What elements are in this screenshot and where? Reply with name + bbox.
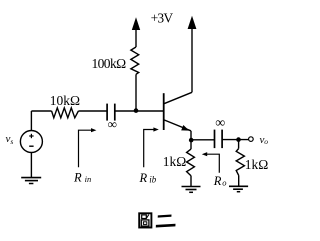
svg-text:10kΩ: 10kΩ <box>50 93 80 108</box>
svg-text:ib: ib <box>149 174 157 184</box>
svg-text:R: R <box>73 170 82 184</box>
svg-text:100kΩ: 100kΩ <box>92 56 127 71</box>
svg-text:o: o <box>222 178 226 188</box>
svg-text:1kΩ: 1kΩ <box>163 154 187 169</box>
svg-text:in: in <box>85 174 92 184</box>
svg-text:s: s <box>10 137 13 146</box>
svg-text:∞: ∞ <box>215 116 225 131</box>
svg-text:1kΩ: 1kΩ <box>245 157 269 172</box>
svg-text:R: R <box>213 174 222 188</box>
svg-text:R: R <box>139 171 148 185</box>
svg-text:o: o <box>264 137 268 146</box>
svg-text:∞: ∞ <box>108 117 117 132</box>
svg-text:+3V: +3V <box>151 11 174 26</box>
